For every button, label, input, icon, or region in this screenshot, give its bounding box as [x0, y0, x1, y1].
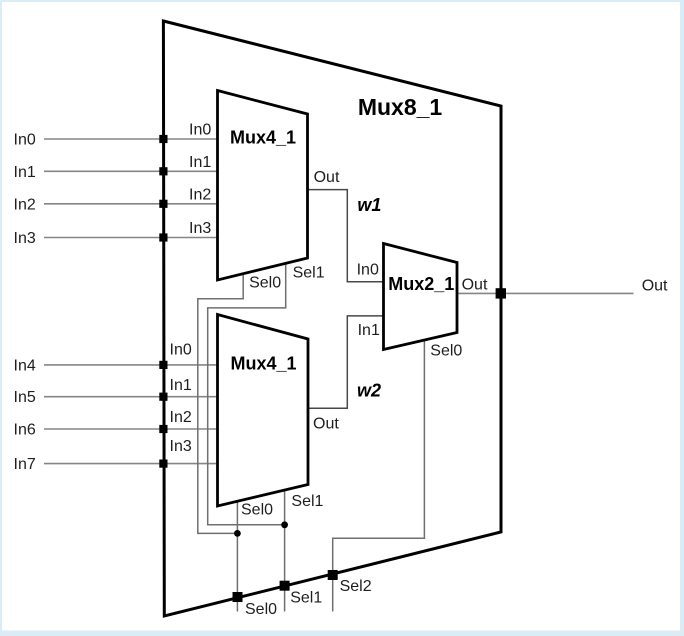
svg-text:Out: Out	[642, 278, 668, 295]
wire In0	[44, 138, 218, 140]
svg-text:In1: In1	[14, 164, 36, 181]
wire Sel0 net (U1 Sel0 route to port)	[198, 274, 243, 534]
svg-text:In3: In3	[170, 438, 192, 455]
svg-text:In4: In4	[14, 357, 36, 374]
svg-text:Sel0: Sel0	[241, 502, 273, 519]
svg-text:Sel0: Sel0	[430, 342, 462, 359]
wire In5	[44, 396, 218, 398]
wire Sel2 net (U3 Sel0 route to port)	[333, 340, 425, 612]
wire In7	[44, 463, 218, 465]
wire Sel0 net (U2 Sel0 stub down to port)	[236, 501, 238, 611]
wire In2	[44, 203, 218, 205]
svg-text:In1: In1	[189, 154, 211, 171]
wire Out (module output)	[457, 292, 634, 294]
op block U1 Mux4_1 (top)	[218, 91, 308, 281]
port square Sel1	[280, 581, 290, 591]
svg-text:Sel1: Sel1	[291, 493, 323, 510]
svg-text:In6: In6	[14, 422, 36, 439]
svg-text:In1: In1	[358, 322, 380, 339]
port square Sel0	[233, 592, 243, 602]
junction dot Sel1 net	[281, 521, 288, 528]
svg-text:In0: In0	[14, 132, 36, 149]
port square In3	[159, 233, 167, 241]
wire In3	[44, 237, 218, 239]
port square In1	[159, 167, 167, 175]
svg-text:w1: w1	[357, 195, 381, 215]
svg-text:Sel1: Sel1	[290, 590, 322, 607]
svg-text:Mux4_1: Mux4_1	[230, 128, 296, 148]
wire w2	[308, 316, 384, 408]
svg-text:In2: In2	[14, 196, 36, 213]
svg-text:In3: In3	[189, 220, 211, 237]
port square In2	[159, 200, 167, 208]
op block U3 Mux2_1	[384, 244, 458, 350]
port square Out	[496, 288, 506, 298]
svg-text:In7: In7	[14, 456, 36, 473]
module boundary Mux8_1	[163, 21, 501, 616]
wire w1	[308, 190, 384, 282]
svg-text:Sel0: Sel0	[249, 275, 281, 292]
svg-text:In0: In0	[170, 342, 192, 359]
port square In7	[159, 460, 167, 468]
wire In4	[44, 364, 218, 366]
svg-text:Out: Out	[462, 276, 488, 293]
svg-text:In2: In2	[189, 186, 211, 203]
wire In6	[44, 428, 218, 430]
wire Sel1 net (U2 Sel1 stub down to port)	[284, 490, 286, 612]
port square In5	[159, 393, 167, 401]
svg-text:Sel1: Sel1	[293, 265, 325, 282]
svg-text:w2: w2	[357, 381, 381, 401]
svg-text:In1: In1	[170, 377, 192, 394]
junction dot Sel0 net	[234, 530, 241, 537]
port square In6	[159, 425, 167, 433]
svg-text:In3: In3	[14, 230, 36, 247]
port square In4	[159, 361, 167, 369]
svg-text:Mux4_1: Mux4_1	[230, 354, 296, 374]
svg-text:Out: Out	[314, 169, 340, 186]
svg-text:Mux8_1: Mux8_1	[358, 94, 443, 120]
svg-text:In0: In0	[357, 262, 379, 279]
op block U2 Mux4_1 (bottom)	[218, 315, 309, 507]
svg-text:Mux2_1: Mux2_1	[388, 274, 454, 294]
wire In1	[44, 170, 218, 172]
port square Sel2	[328, 570, 338, 580]
svg-text:In2: In2	[170, 409, 192, 426]
wire Sel1 net (U1 Sel1 route to port)	[208, 263, 286, 524]
svg-text:In0: In0	[189, 122, 211, 139]
svg-text:Sel0: Sel0	[245, 601, 277, 618]
port square In0	[159, 135, 167, 143]
svg-text:Sel2: Sel2	[340, 578, 372, 595]
svg-text:In5: In5	[14, 389, 36, 406]
svg-text:Out: Out	[313, 416, 339, 433]
